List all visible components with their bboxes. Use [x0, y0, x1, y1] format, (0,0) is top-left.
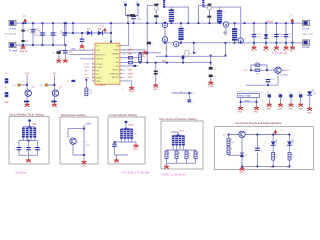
wire fuse vertical: [22, 23, 24, 45]
transistor Q2: [25, 87, 35, 97]
box1 bottom bus: [19, 150, 38, 158]
svg-text:J3 out: J3 out: [302, 27, 309, 31]
box2 transistor Q4: [70, 138, 76, 144]
transformer T1 source circle 1: [162, 22, 167, 27]
box5 Aux Power Supply and Fault Indicators: [215, 121, 314, 170]
svg-text:xx.x/0.05A max: xx.x/0.05A max: [272, 52, 288, 55]
svg-text:EARTH: EARTH: [20, 50, 28, 53]
svg-text:Circuit Breaker Timer Setting: Circuit Breaker Timer Setting: [9, 112, 44, 116]
svg-text:AC: AC: [23, 15, 27, 18]
left diode stack D6: [5, 73, 9, 83]
box4 Rd: [194, 151, 200, 159]
svg-text:VC: VC: [287, 70, 290, 72]
diode D2: [98, 29, 103, 36]
mirror A emitter bar: [24, 101, 29, 103]
red x marks near pins: [129, 48, 131, 53]
svg-text:1k: 1k: [276, 156, 278, 158]
svg-text:ISN: ISN: [116, 62, 120, 64]
ground out1: [252, 45, 257, 52]
box5 power flag: [274, 130, 285, 135]
U1 left pin wires upper: [69, 50, 92, 59]
svg-text:6: 6: [92, 69, 93, 71]
wire rail2 lower AC bus: [17, 44, 66, 46]
net flag T1: [123, 2, 127, 6]
ground input neutral: [20, 45, 28, 53]
svg-text:10k: 10k: [89, 93, 92, 95]
svg-text:V-: V-: [5, 87, 7, 89]
svg-text:GND: GND: [153, 89, 158, 91]
net flag T2: [136, 2, 140, 6]
box4 Rc: [185, 151, 191, 159]
svg-text:Temperature sensing: Temperature sensing: [61, 113, 87, 117]
box1 Circuit Breaker Timer Setting: [9, 112, 49, 164]
current mirror A sense dot: [13, 83, 21, 87]
svg-text:GND: GND: [307, 112, 312, 114]
U1 right pins: [120, 46, 123, 81]
wire ic bottom right ground L: [123, 81, 132, 86]
svg-text:12V: 12V: [280, 130, 284, 132]
box3 capacitor: [112, 144, 119, 148]
resistor on fb row: [128, 61, 132, 64]
svg-text:x: x: [268, 143, 269, 145]
box5 wires: [229, 135, 290, 167]
ground mirror B: [52, 103, 57, 107]
box3 resistor pack: [120, 129, 133, 139]
svg-text:CTL1: CTL1: [85, 64, 91, 66]
transformer T2 primary coil: [217, 10, 226, 22]
ground mid2: [208, 77, 214, 88]
svg-text:GND: GND: [129, 91, 134, 93]
ground ic bottom right: [129, 86, 134, 93]
test diode TP3: [288, 92, 293, 110]
svg-text:SW: SW: [116, 46, 119, 48]
svg-text:n: n: [193, 93, 194, 95]
capacitor C4: [59, 32, 67, 35]
wire vcc cap ground stem: [81, 43, 83, 44]
resistor R5 top: [255, 62, 260, 66]
svg-text:J1 line: J1 line: [9, 26, 17, 30]
svg-text:TEMP: TEMP: [85, 123, 92, 125]
svg-text:SYNC: SYNC: [96, 77, 102, 79]
U1 left pin net labels: [85, 64, 91, 80]
svg-text:GND: GND: [133, 149, 138, 151]
svg-text:Over Current Protection Settin: Over Current Protection Setting: [159, 117, 197, 121]
ground out3: [274, 45, 279, 52]
ground mid1: [153, 83, 158, 91]
box2 Temperature sensing: [60, 113, 98, 164]
net label VCC flag: [99, 26, 106, 33]
U1 SW pin riser: [123, 23, 129, 45]
ground fault1: [238, 106, 243, 114]
svg-text:2: 2: [92, 53, 93, 55]
wire rail1 top AC/output bus: [17, 22, 303, 24]
wire vcc branch: [66, 23, 111, 43]
svg-text:4.7V @ 5A 1.7V @ 10A: 4.7V @ 5A 1.7V @ 10A: [121, 170, 149, 174]
svg-text:5: 5: [92, 66, 93, 68]
cap stack C8: [209, 67, 217, 71]
connector J1 ac line: [9, 20, 17, 30]
snubber2 diode gray: [208, 6, 212, 10]
capacitor C3: [51, 32, 58, 37]
svg-text:Rs: Rs: [190, 53, 192, 55]
svg-text:GATE: GATE: [114, 49, 120, 52]
box1 capacitor Cb: [26, 147, 33, 151]
svg-text:VCC: VCC: [99, 26, 104, 28]
svg-text:INTVcc: INTVcc: [96, 59, 103, 61]
current mirror A wires: [19, 75, 30, 104]
capacitor C10 out: [252, 34, 263, 39]
blue hyperlink box: [238, 94, 259, 98]
cap stack C9: [209, 75, 217, 79]
svg-text:7: 7: [92, 73, 93, 75]
svg-text:tbd 50ms: tbd 50ms: [16, 170, 28, 174]
resistor on sense row: [128, 56, 132, 59]
box5 ground: [239, 166, 244, 174]
fuse F1: [21, 30, 29, 33]
svg-text:3: 3: [92, 57, 93, 59]
capacitor C6 top: [131, 16, 142, 21]
snubber1 diode gray: [154, 6, 158, 10]
bridge rectifier gray: [35, 28, 41, 35]
svg-text:GND: GND: [96, 81, 101, 83]
wire transformer1 top loop: [164, 7, 188, 23]
box5 pass transistor Q5: [239, 130, 249, 137]
ammeter circle on secondary bus: [174, 42, 179, 47]
box1 capacitor Cc: [35, 147, 42, 151]
box4 Ra: [165, 151, 171, 159]
snubber lower resistor: [147, 42, 154, 45]
svg-text:+12V: +12V: [24, 73, 30, 75]
svg-text:1k: 1k: [292, 156, 294, 158]
svg-text:GND: GND: [238, 111, 243, 113]
box5 resistor Rb: [227, 147, 233, 155]
transformer T1 primary coil: [169, 9, 178, 21]
transformer T2 cross marks: [223, 31, 227, 35]
op-amp U1 controller body: [95, 43, 120, 84]
svg-text:(aux out): (aux out): [303, 32, 313, 36]
U1 top wire stub: [110, 41, 112, 44]
svg-text:470u: 470u: [257, 37, 263, 39]
box1 net flag: [28, 120, 37, 127]
transistor Q1: [275, 67, 290, 77]
svg-text:EN/UVLO: EN/UVLO: [96, 54, 105, 56]
svg-text:NOTE: aux fault status line: NOTE: aux fault status line: [237, 91, 263, 94]
box2 wires: [68, 125, 84, 160]
svg-text:SENSE: SENSE: [112, 54, 119, 56]
U1 left pin numbers: [92, 49, 93, 82]
svg-text:SHORT: SHORT: [112, 77, 120, 79]
svg-text:J2 neut: J2 neut: [9, 48, 18, 52]
U1 right pin arrows: [123, 49, 125, 80]
svg-text:GND: GND: [267, 108, 272, 110]
ground out5: [290, 45, 295, 52]
left diode stack D7: [5, 87, 9, 97]
svg-text:GND: GND: [254, 111, 259, 113]
box2 ground: [81, 160, 86, 168]
transformer T2 secondary coil: [232, 28, 241, 40]
connector J2 ac neutral: [9, 42, 18, 52]
svg-text:GND: GND: [81, 166, 86, 168]
stub net above box4: [172, 91, 195, 103]
box5 capacitor: [255, 148, 263, 154]
zener D5 out: [264, 34, 269, 38]
box5 bottom pads: [271, 167, 290, 169]
fault box wires: [241, 98, 257, 106]
box5 LED2: [284, 140, 294, 146]
resistor R6 mid: [255, 69, 260, 75]
sense diode: [181, 57, 185, 60]
box4 net label: [171, 130, 184, 135]
svg-text:PG: PG: [142, 56, 145, 58]
resistor R4 mid: [85, 80, 93, 98]
snubber1 lower cap bar: [154, 15, 159, 17]
wire transformer1 stems: [165, 22, 181, 43]
svg-text:VMODE: VMODE: [112, 70, 120, 72]
box1 capacitor Ca: [14, 147, 21, 151]
current mirror B wires: [46, 75, 57, 104]
wire snubber1: [147, 5, 156, 23]
ground gate row: [142, 50, 147, 58]
box4 mid bus: [167, 145, 196, 164]
ground bias1: [56, 59, 61, 63]
svg-text:CTL2: CTL2: [85, 67, 91, 69]
svg-text:Q1 3904: Q1 3904: [280, 75, 289, 77]
cap mid C7: [154, 71, 162, 75]
box5 zener D9: [240, 153, 247, 157]
svg-text:GND: GND: [239, 172, 244, 174]
box1 pack bottom wires: [19, 138, 38, 148]
svg-text:TMR: TMR: [32, 124, 37, 126]
transformer T1 secondary coil: [178, 28, 187, 40]
svg-text:CTRL2: CTRL2: [96, 67, 103, 69]
capacitor C11 out: [274, 34, 284, 39]
svg-text:IMON: IMON: [128, 124, 134, 126]
svg-text:VO: VO: [290, 15, 293, 17]
wire output ground stems: [254, 43, 293, 46]
capacitor C2: [40, 32, 47, 37]
resistor vertical between rows: [139, 54, 142, 62]
ground out2: [264, 45, 269, 52]
svg-text:Dz: Dz: [245, 155, 247, 157]
wire secondary bottom bus: [163, 42, 302, 44]
svg-text:100n: 100n: [137, 19, 143, 21]
current mirror B sense dot: [40, 83, 48, 87]
opto feedback circuit wires: [246, 65, 286, 85]
diode D1: [87, 29, 92, 36]
ground bias2: [63, 59, 68, 63]
box5 LED1: [268, 140, 278, 146]
mirror B emitter bar: [51, 101, 56, 103]
connector J4 aux out: [302, 40, 310, 49]
svg-text:1: 1: [92, 49, 93, 51]
connector J3 main out: [302, 20, 310, 30]
pads on fb row: [134, 65, 137, 67]
box3 net flag: [125, 121, 135, 129]
small part right of mirrors: [67, 80, 75, 83]
box5 resistor Ra: [227, 138, 234, 146]
wire top flags net: [126, 6, 139, 23]
resistor R2 top: [130, 14, 135, 16]
svg-text:Rm: Rm: [40, 85, 43, 87]
svg-text:10k: 10k: [231, 142, 234, 144]
test diode TP2: [278, 92, 283, 110]
ground vcc cap: [79, 44, 84, 52]
U1 right pin labels red: [128, 49, 134, 80]
svg-text:OCP: OCP: [179, 130, 184, 132]
svg-text:REF: REF: [4, 102, 9, 104]
capacitor C14: [266, 79, 276, 82]
wire output cap verticals: [254, 23, 293, 43]
wire left lower feed: [59, 45, 66, 59]
transformer T2 source circle 2: [238, 38, 243, 43]
svg-text:GND: GND: [298, 108, 303, 110]
capacitor C12 out: [284, 34, 294, 39]
svg-text:PGND: PGND: [208, 86, 214, 88]
box4 resistor pack: [172, 135, 185, 145]
svg-text:GND: GND: [288, 108, 293, 110]
svg-text:GATE: GATE: [128, 49, 134, 52]
transformer T1 source circle 2: [162, 37, 167, 42]
wire transformer2 stems: [220, 22, 241, 43]
svg-text:100k: 100k: [86, 145, 90, 147]
transistor Q3: [52, 87, 62, 97]
svg-text:4: 4: [92, 62, 93, 64]
box4 Over Current Protection Setting: [159, 117, 203, 169]
svg-text:SHRT: SHRT: [128, 77, 134, 79]
ground out4: [284, 45, 289, 52]
capacitor C5 vcc: [80, 39, 85, 42]
test diode TP4: [298, 92, 303, 110]
svg-text:x: x: [284, 143, 285, 145]
svg-text:Aux Power Supply and Fault Ind: Aux Power Supply and Fault Indicators: [235, 121, 282, 125]
wire transformer2 top loop: [203, 7, 240, 38]
box5 LED1 resistor: [272, 153, 278, 161]
wire mid right net: [123, 23, 226, 83]
LED D8 indicator: [307, 89, 317, 114]
left lower bias cap: [63, 50, 73, 53]
svg-text:SNS: SNS: [128, 54, 133, 56]
svg-text:10u: 10u: [260, 151, 263, 153]
svg-text:9: 9: [92, 79, 93, 81]
svg-text:STAT: STAT: [245, 99, 251, 102]
power flag input: [23, 15, 27, 23]
svg-text:Current Monitor Scaling: Current Monitor Scaling: [109, 113, 138, 117]
bus stack T2: [197, 0, 204, 7]
test diode TP1: [267, 92, 272, 110]
box1 resistor pack: [22, 127, 36, 138]
svg-text:ISN: ISN: [162, 61, 166, 63]
U1 left pins: [92, 50, 95, 81]
ground mirror A: [25, 103, 30, 107]
box4 Rb: [175, 151, 181, 159]
box3 ground bottom: [114, 158, 119, 162]
capacitor C1: [28, 29, 35, 33]
box5 LED2 resistor: [288, 153, 294, 161]
left lower bias parts: blob R: [52, 51, 61, 54]
snubber1 resistor bar: [154, 4, 158, 6]
box4 ground: [164, 165, 169, 169]
svg-text:8: 8: [92, 76, 93, 78]
svg-text:CTRL1: CTRL1: [96, 64, 103, 66]
box3 Current Monitor Scaling: [108, 113, 145, 164]
wire cap verticals between rails: [33, 23, 65, 45]
svg-text:FAULT MAP: FAULT MAP: [239, 95, 251, 98]
ground fault2: [254, 106, 259, 114]
power flag vout: [290, 15, 294, 24]
svg-text:GND: GND: [278, 108, 283, 110]
svg-text:OPEN: OPEN: [128, 73, 134, 75]
svg-text:J4 aux: J4 aux: [302, 45, 310, 49]
transformer T2 source circle 1: [223, 22, 228, 27]
svg-text:+12V: +12V: [51, 73, 57, 75]
snubber2 lower cap bar: [207, 16, 211, 18]
svg-text:Rm: Rm: [13, 85, 16, 87]
fuse F2: [21, 40, 29, 43]
box3 ground right: [133, 144, 138, 152]
svg-text:OPENLED: OPENLED: [109, 74, 119, 76]
svg-text:VMD: VMD: [128, 70, 133, 72]
wire snubber2: [198, 5, 209, 23]
gray sense element: [185, 51, 192, 57]
svg-text:(ac input): (ac input): [5, 32, 17, 36]
svg-text:VIN: VIN: [96, 50, 100, 52]
svg-text:LT3796-1: LT3796-1: [96, 85, 106, 87]
bus stack T1: [158, 0, 165, 8]
box3 wires: [115, 139, 137, 159]
box1 ground: [26, 158, 31, 162]
svg-text:NOTE: 5L 5% 5A 8A: NOTE: 5L 5% 5A 8A: [162, 172, 187, 176]
svg-text:xx: xx: [180, 91, 182, 93]
snubber2 resistor bar: [208, 4, 212, 6]
